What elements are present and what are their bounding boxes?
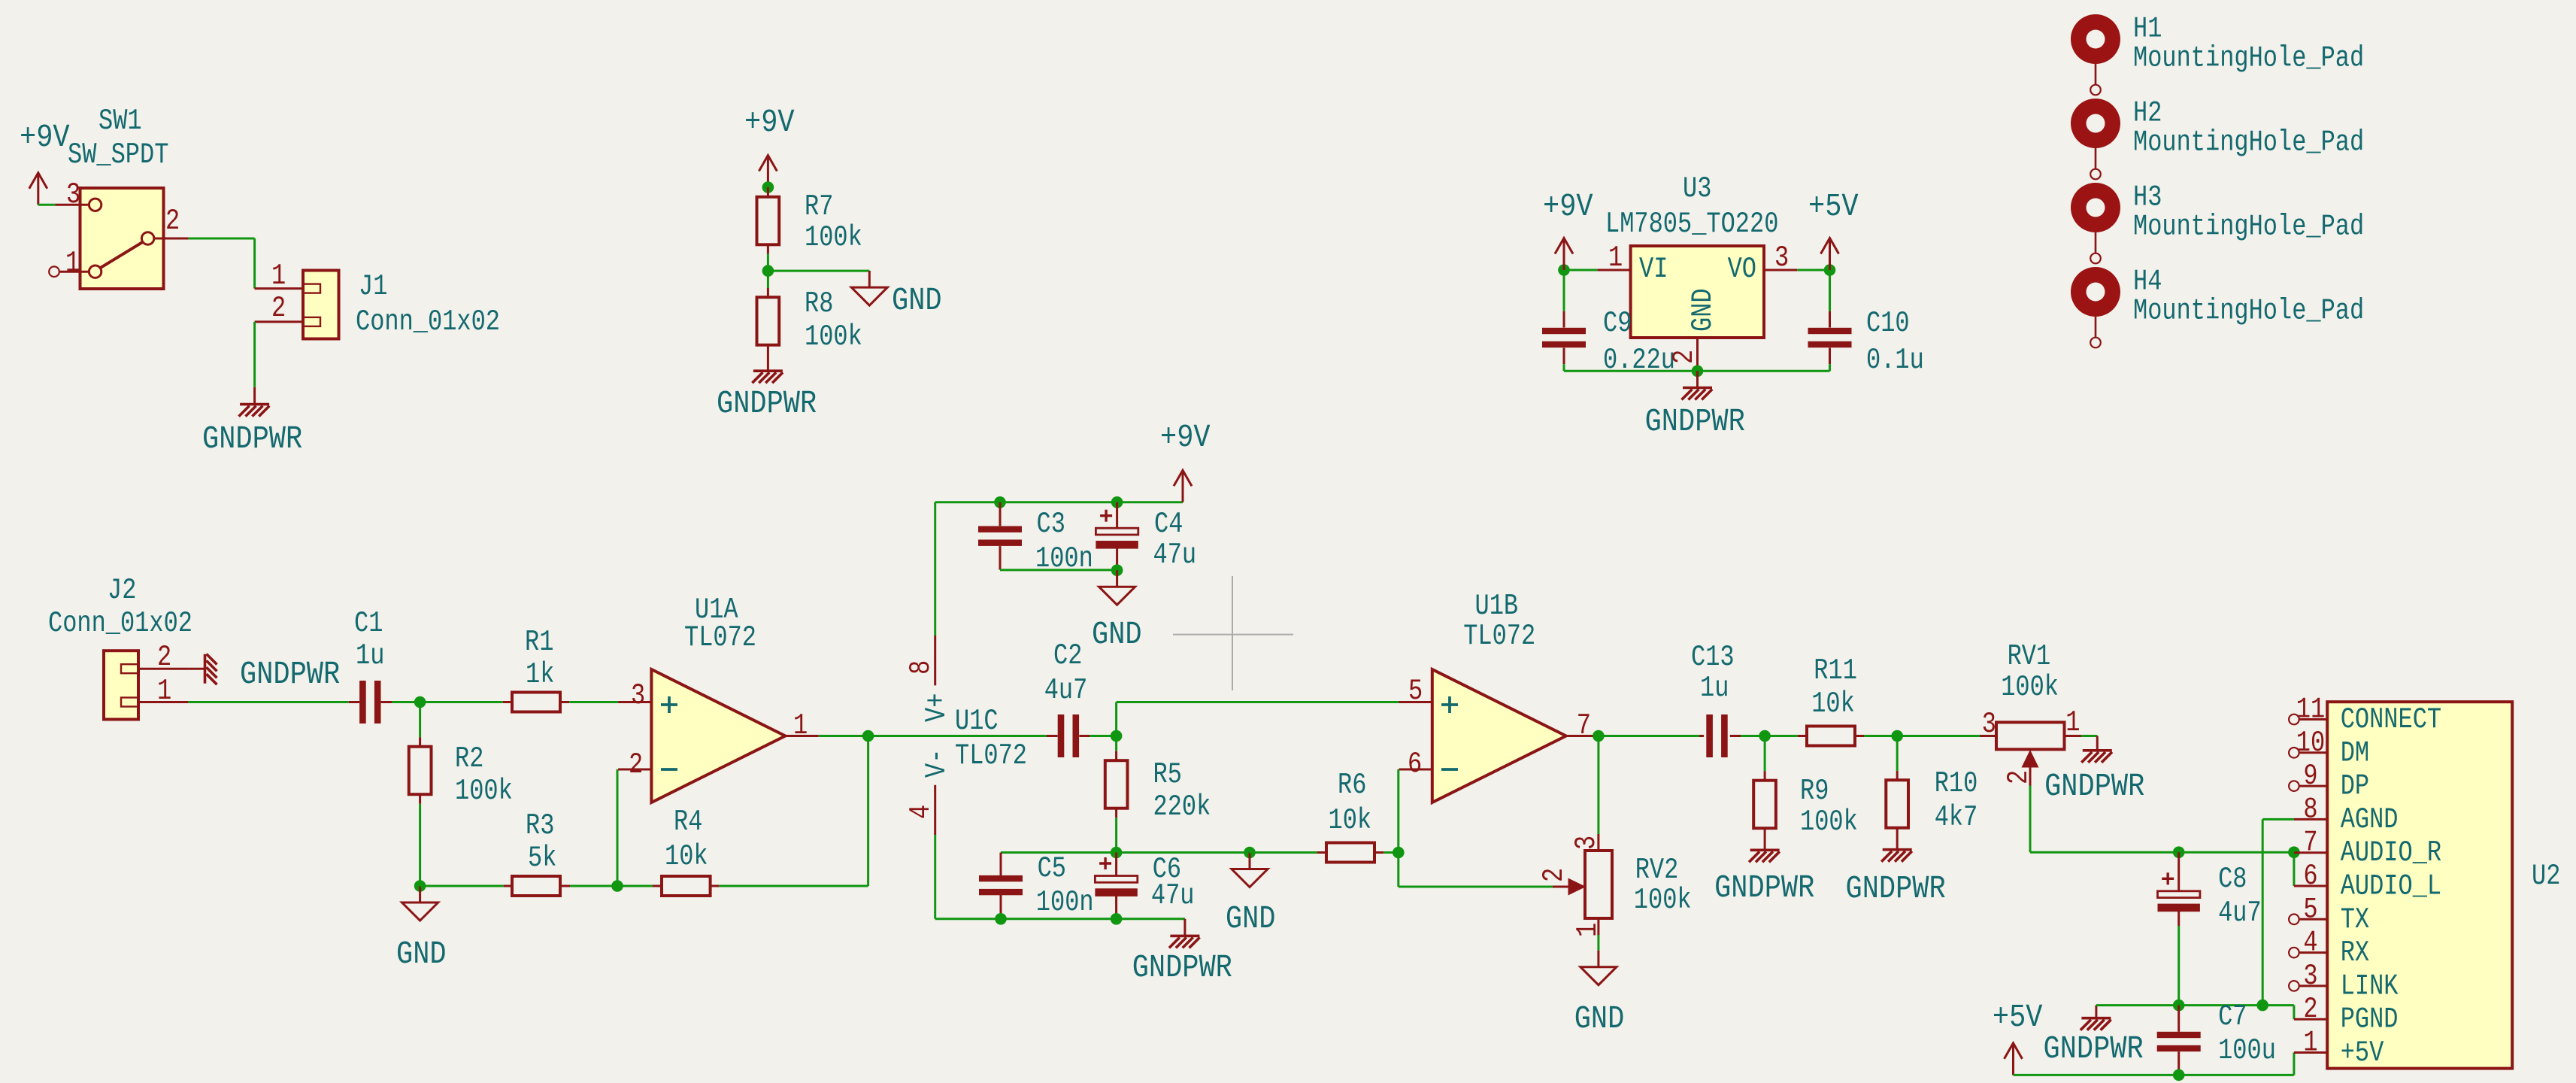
svg-text:GNDPWR: GNDPWR bbox=[2044, 1031, 2144, 1067]
svg-text:DM: DM bbox=[2341, 736, 2369, 769]
svg-text:GNDPWR: GNDPWR bbox=[1846, 871, 1946, 907]
svg-text:GNDPWR: GNDPWR bbox=[1645, 404, 1745, 440]
svg-text:R11: R11 bbox=[1814, 654, 1857, 687]
svg-text:7: 7 bbox=[1577, 708, 1591, 742]
svg-text:AUDIO_R: AUDIO_R bbox=[2341, 836, 2441, 869]
svg-text:3: 3 bbox=[1774, 241, 1789, 275]
svg-text:GND: GND bbox=[1574, 1001, 1625, 1037]
svg-text:100u: 100u bbox=[2218, 1033, 2276, 1067]
svg-text:8: 8 bbox=[904, 660, 938, 675]
svg-text:GND: GND bbox=[396, 936, 447, 972]
svg-text:6: 6 bbox=[1408, 747, 1422, 781]
svg-text:PGND: PGND bbox=[2341, 1003, 2399, 1036]
svg-text:3: 3 bbox=[1982, 707, 1996, 741]
svg-text:100k: 100k bbox=[1634, 883, 1692, 917]
svg-text:1: 1 bbox=[157, 674, 171, 708]
svg-text:R6: R6 bbox=[1338, 768, 1366, 802]
svg-text:4k7: 4k7 bbox=[1935, 800, 1978, 834]
svg-text:V+: V+ bbox=[920, 693, 953, 722]
svg-text:2: 2 bbox=[1537, 868, 1571, 882]
svg-text:1: 1 bbox=[793, 708, 808, 742]
svg-text:1: 1 bbox=[65, 246, 80, 280]
svg-text:GNDPWR: GNDPWR bbox=[1132, 950, 1232, 986]
svg-text:5: 5 bbox=[1408, 674, 1423, 708]
svg-text:U1C: U1C bbox=[955, 704, 999, 738]
svg-text:C3: C3 bbox=[1037, 507, 1065, 541]
svg-text:10k: 10k bbox=[665, 839, 708, 873]
svg-text:4u7: 4u7 bbox=[2218, 896, 2262, 930]
svg-text:VI: VI bbox=[1639, 252, 1668, 286]
svg-text:4u7: 4u7 bbox=[1044, 673, 1088, 707]
svg-text:GND: GND bbox=[892, 283, 942, 319]
svg-text:Conn_01x02: Conn_01x02 bbox=[356, 305, 500, 338]
svg-text:220k: 220k bbox=[1153, 790, 1211, 824]
svg-text:10: 10 bbox=[2296, 726, 2325, 760]
svg-text:C9: C9 bbox=[1603, 306, 1632, 340]
svg-text:TL072: TL072 bbox=[1463, 619, 1535, 653]
svg-text:C1: C1 bbox=[354, 606, 383, 640]
svg-text:+5V: +5V bbox=[2341, 1036, 2384, 1069]
svg-text:+9V: +9V bbox=[1543, 189, 1593, 225]
svg-text:GNDPWR: GNDPWR bbox=[240, 657, 340, 693]
svg-text:MountingHole_Pad: MountingHole_Pad bbox=[2133, 294, 2364, 328]
svg-text:R1: R1 bbox=[525, 625, 553, 659]
svg-text:LINK: LINK bbox=[2341, 969, 2399, 1003]
svg-text:2: 2 bbox=[2303, 992, 2317, 1026]
svg-text:1: 1 bbox=[2303, 1026, 2317, 1060]
svg-text:3: 3 bbox=[1569, 836, 1603, 850]
svg-text:4: 4 bbox=[904, 805, 938, 819]
svg-text:GND: GND bbox=[1226, 901, 1276, 937]
svg-text:2: 2 bbox=[165, 204, 180, 238]
svg-text:J2: J2 bbox=[108, 573, 136, 607]
svg-text:U3: U3 bbox=[1683, 171, 1711, 205]
svg-text:GNDPWR: GNDPWR bbox=[202, 421, 302, 457]
svg-text:LM7805_TO220: LM7805_TO220 bbox=[1605, 207, 1778, 241]
svg-text:2: 2 bbox=[629, 748, 643, 781]
svg-text:AUDIO_L: AUDIO_L bbox=[2341, 869, 2441, 903]
svg-text:R5: R5 bbox=[1153, 757, 1182, 791]
svg-text:7: 7 bbox=[2303, 826, 2317, 860]
svg-text:R3: R3 bbox=[526, 808, 554, 842]
svg-text:R8: R8 bbox=[805, 287, 833, 320]
svg-text:R10: R10 bbox=[1935, 766, 1978, 800]
svg-text:R4: R4 bbox=[674, 805, 702, 839]
svg-text:100k: 100k bbox=[805, 320, 862, 353]
svg-text:Conn_01x02: Conn_01x02 bbox=[48, 606, 192, 640]
svg-text:DP: DP bbox=[2341, 769, 2369, 803]
svg-text:+9V: +9V bbox=[744, 105, 795, 141]
svg-text:4: 4 bbox=[2303, 926, 2317, 960]
svg-text:GNDPWR: GNDPWR bbox=[717, 386, 817, 422]
svg-text:GND: GND bbox=[1092, 617, 1142, 653]
svg-text:MountingHole_Pad: MountingHole_Pad bbox=[2133, 126, 2364, 159]
svg-text:U2: U2 bbox=[2532, 859, 2560, 893]
svg-text:100k: 100k bbox=[1800, 805, 1858, 839]
svg-text:47u: 47u bbox=[1153, 538, 1197, 572]
svg-text:100k: 100k bbox=[2001, 670, 2059, 704]
svg-text:1u: 1u bbox=[356, 639, 384, 672]
svg-text:C8: C8 bbox=[2218, 862, 2247, 896]
svg-text:R7: R7 bbox=[805, 190, 833, 223]
svg-text:R9: R9 bbox=[1800, 774, 1829, 808]
svg-text:2: 2 bbox=[157, 640, 171, 674]
svg-text:47u: 47u bbox=[1151, 878, 1195, 912]
svg-text:9: 9 bbox=[2303, 759, 2317, 793]
svg-text:RX: RX bbox=[2341, 936, 2369, 969]
svg-text:5k: 5k bbox=[528, 841, 556, 875]
svg-text:0.1u: 0.1u bbox=[1866, 343, 1924, 377]
svg-text:C5: C5 bbox=[1038, 851, 1066, 885]
svg-text:1: 1 bbox=[271, 259, 286, 293]
svg-text:3: 3 bbox=[631, 678, 645, 712]
svg-text:RV2: RV2 bbox=[1635, 853, 1679, 887]
svg-text:TL072: TL072 bbox=[955, 739, 1027, 772]
svg-text:11: 11 bbox=[2296, 693, 2325, 727]
svg-text:C4: C4 bbox=[1154, 507, 1183, 541]
svg-text:10k: 10k bbox=[1811, 687, 1855, 720]
svg-text:RV1: RV1 bbox=[2008, 639, 2051, 673]
svg-text:8: 8 bbox=[2303, 793, 2317, 827]
svg-text:AGND: AGND bbox=[2341, 802, 2399, 836]
svg-text:SW_SPDT: SW_SPDT bbox=[68, 138, 168, 171]
svg-text:SW1: SW1 bbox=[98, 104, 142, 138]
svg-text:3: 3 bbox=[66, 177, 80, 211]
svg-text:TL072: TL072 bbox=[684, 620, 756, 654]
svg-text:J1: J1 bbox=[359, 269, 387, 303]
svg-text:MountingHole_Pad: MountingHole_Pad bbox=[2133, 210, 2364, 244]
svg-text:2: 2 bbox=[271, 291, 286, 325]
svg-text:+5V: +5V bbox=[1993, 1000, 2043, 1036]
svg-text:GNDPWR: GNDPWR bbox=[1714, 870, 1814, 906]
svg-text:1: 1 bbox=[2065, 705, 2080, 739]
svg-text:+5V: +5V bbox=[1808, 189, 1859, 225]
svg-text:2: 2 bbox=[2002, 770, 2035, 784]
svg-text:1u: 1u bbox=[1700, 671, 1729, 705]
svg-text:1: 1 bbox=[1608, 241, 1623, 275]
svg-text:6: 6 bbox=[2303, 859, 2317, 893]
svg-text:V-: V- bbox=[920, 749, 953, 778]
svg-text:+9V: +9V bbox=[1160, 420, 1211, 456]
svg-text:1k: 1k bbox=[526, 657, 554, 691]
svg-text:R2: R2 bbox=[455, 742, 483, 775]
svg-text:C7: C7 bbox=[2218, 1000, 2247, 1033]
svg-text:C13: C13 bbox=[1691, 640, 1735, 674]
svg-text:5: 5 bbox=[2303, 892, 2317, 926]
svg-text:+9V: +9V bbox=[20, 120, 70, 156]
svg-text:CONNECT: CONNECT bbox=[2341, 702, 2441, 736]
svg-text:100k: 100k bbox=[455, 774, 513, 808]
svg-text:100n: 100n bbox=[1036, 885, 1094, 919]
svg-text:VO: VO bbox=[1728, 252, 1756, 286]
svg-text:100k: 100k bbox=[805, 220, 862, 254]
svg-text:C2: C2 bbox=[1053, 639, 1082, 672]
svg-text:GNDPWR: GNDPWR bbox=[2044, 769, 2144, 805]
svg-text:C10: C10 bbox=[1866, 306, 1910, 340]
svg-text:MountingHole_Pad: MountingHole_Pad bbox=[2133, 41, 2364, 75]
svg-text:TX: TX bbox=[2341, 902, 2369, 936]
svg-text:GND: GND bbox=[1686, 288, 1720, 332]
svg-text:10k: 10k bbox=[1329, 803, 1372, 837]
svg-text:3: 3 bbox=[2303, 959, 2317, 993]
svg-text:U1B: U1B bbox=[1475, 589, 1519, 623]
svg-text:2: 2 bbox=[1667, 350, 1701, 364]
